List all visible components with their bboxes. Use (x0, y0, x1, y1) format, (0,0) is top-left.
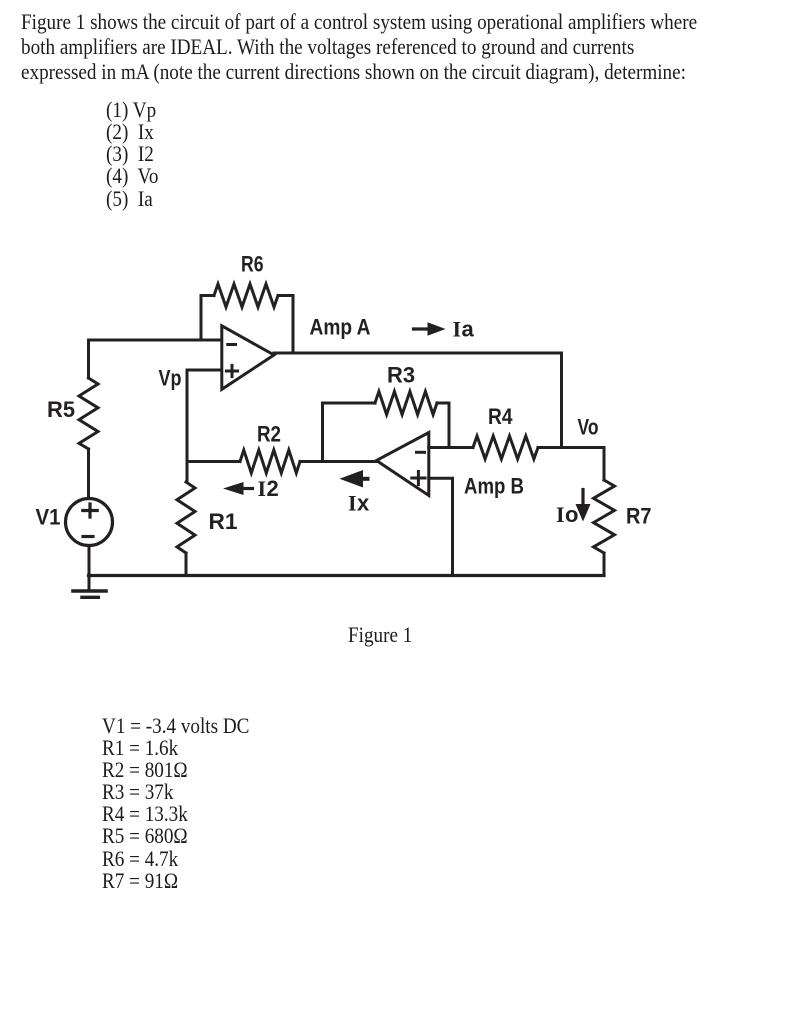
svg-text:Amp A: Amp A (310, 314, 371, 339)
bottom ground rail wire (89, 574, 605, 577)
svg-text:I2: I2 (258, 476, 279, 501)
wire node Vp from Amp A non-inverting input down to R1 (187, 370, 222, 482)
wire R1 bottom to ground rail (185, 553, 188, 576)
svg-text:Vp: Vp (159, 366, 182, 391)
current arrow I2 (223, 482, 253, 495)
wire Amp A output to Vo node (274, 353, 604, 448)
voltage source V1 (66, 499, 113, 546)
figure caption (348, 622, 412, 647)
svg-text:Ix: Ix (348, 491, 370, 516)
wire R2 to Amp B output (323, 460, 377, 463)
svg-text:V1: V1 (36, 505, 61, 530)
current arrow Ia (414, 322, 446, 335)
svg-text:Io: Io (556, 502, 578, 527)
problem statement paragraph (21, 9, 697, 84)
resistor R5 (79, 378, 98, 449)
svg-text:R4: R4 (488, 404, 513, 429)
svg-text:R2: R2 (257, 422, 281, 447)
svg-text:R5: R5 (47, 397, 75, 422)
op-amp Amp B (377, 433, 429, 496)
current arrow Io (576, 490, 591, 522)
resistor R3 feedback loop (323, 392, 450, 462)
wire V1 bottom to ground rail (88, 546, 91, 590)
svg-text:Amp B: Amp B (464, 474, 524, 499)
svg-text:R3: R3 (387, 363, 415, 388)
current arrow Ix (340, 470, 368, 488)
numbered list of quantities (106, 99, 158, 210)
resistor R7 with leads (594, 448, 615, 576)
svg-text:R7: R7 (626, 504, 652, 529)
resistor R2 with leads (187, 450, 323, 473)
component values list (102, 715, 249, 892)
ground (73, 591, 106, 597)
svg-text:R1: R1 (209, 509, 238, 534)
svg-text:Vo: Vo (578, 415, 599, 440)
wire R5 bottom to V1 (87, 449, 90, 499)
wire from R5 top to Amp A inverting input (89, 340, 223, 378)
svg-text:Ia: Ia (453, 317, 475, 342)
resistor R4 with lead (473, 436, 562, 459)
svg-text:R6: R6 (241, 252, 264, 277)
resistor R1 (177, 482, 195, 553)
op-amp Amp A (222, 326, 274, 390)
wire Amp B non-inverting input down to ground rail (429, 478, 453, 575)
resistor R6 feedback loop (201, 284, 293, 353)
wire Amp B inverting input row to R4 (429, 446, 473, 449)
